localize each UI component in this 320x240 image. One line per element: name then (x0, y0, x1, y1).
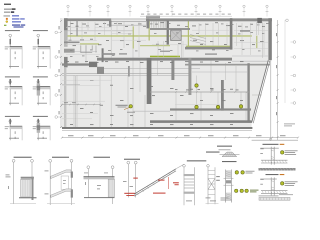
BD4 stair treads (137, 193, 139, 195)
BD1 title (14, 157, 32, 158)
wall band upper-left room (64, 42, 80, 44)
green accent over mid wall (186, 46, 230, 47)
marker dot I (240, 189, 243, 192)
section detail S-S dim ticks (14, 52, 17, 55)
vertical wall x222 lower (221, 80, 224, 111)
BD3 title (94, 157, 111, 158)
BD6 piant wall title (222, 161, 237, 162)
section detail S-S wall line (9, 37, 11, 69)
mid wall junction blob (89, 62, 97, 67)
green vertical right room (256, 36, 257, 49)
section detail C-C' grid bubble (37, 81, 40, 84)
left perimeter wall mid (64, 57, 68, 67)
marker dot A (195, 84, 198, 87)
left dimension line (60, 18, 62, 128)
BD2 left ticks (45, 170, 49, 173)
vertical wall x189 (188, 58, 191, 95)
section detail S-S' base (37, 65, 47, 68)
elevator shaft (171, 30, 182, 40)
section detail C-C' title (33, 76, 48, 77)
extra faint horizontals (66, 26, 90, 28)
leader line (124, 107, 130, 109)
BD2 stems (49, 162, 51, 205)
BD5a ladder column (183, 165, 186, 168)
marker dot J (245, 189, 248, 192)
green accent line long horizontal (66, 35, 252, 36)
BD2 right wall segments (71, 172, 73, 178)
section detail S-S side specks (5, 46, 9, 49)
section detail S-S base (9, 65, 19, 68)
BD2 lower ramp (51, 189, 71, 198)
marker dot F (235, 171, 238, 174)
section detail X1 side specks (5, 125, 9, 128)
section detail C-C base (9, 102, 19, 105)
upper-right room dark segment (240, 30, 250, 32)
section detail C-C title (5, 76, 20, 77)
section detail X2 dim ticks (42, 131, 45, 134)
BD5 red annotation (173, 182, 179, 183)
RC detail 1 left ticks (260, 147, 263, 150)
RC detail 2 horizontal band (261, 190, 288, 192)
left perimeter wall upper (64, 18, 68, 30)
BD4 title (124, 159, 140, 160)
right grid bubbles (286, 19, 289, 22)
section detail C-C' hatched wall (37, 83, 40, 95)
right perimeter wall (268, 18, 271, 60)
section detail S-S' dim ticks (42, 52, 45, 55)
legend title (4, 4, 11, 5)
BD1 left dim specks (6, 174, 10, 177)
section detail C-C slab (10, 85, 23, 88)
green vertical 1 (133, 26, 134, 48)
thick dark wall x148 (147, 58, 152, 104)
section detail X2 wall line (37, 123, 39, 141)
section detail C-C' base (37, 102, 47, 105)
section detail X2 grid bubble (37, 120, 40, 123)
stair core walls (167, 21, 169, 45)
BD1 base (19, 197, 37, 198)
mid wall left section (62, 63, 97, 65)
green vertical core left (149, 21, 150, 41)
section detail S-S wall fill (10, 39, 12, 44)
stair treads (151, 21, 153, 27)
room annotation specks (70, 22, 74, 25)
green accent line short (80, 43, 99, 44)
RC detail 2 vertical (270, 177, 272, 195)
section detail C-C side specks (5, 86, 9, 89)
mid wall main (97, 58, 232, 61)
BD2 grid bubbles (49, 159, 52, 162)
BD3 base (84, 197, 115, 198)
legend line data (4, 12, 11, 13)
RC detail 2 leader text (285, 180, 298, 183)
BD2 upper ramp (51, 170, 71, 179)
section detail X2 wall fill (38, 119, 40, 124)
RC detail 1 leader text (285, 149, 298, 152)
marker dot G (241, 171, 244, 174)
extra faint verticals upper rooms (70, 22, 72, 35)
section detail S-S' title (33, 30, 48, 31)
marker dot K (281, 151, 284, 154)
RC title 1 (263, 144, 279, 145)
wall mid-right lower band (185, 64, 270, 66)
vertical wall x172 (171, 58, 174, 80)
RC bottom band 2 (259, 195, 279, 198)
section detail S-S grid bubble (9, 34, 12, 37)
section detail C-C wall fill (10, 79, 12, 84)
top wall bump over core (146, 16, 160, 19)
BD2 ground (47, 203, 75, 205)
plan bottom thin line (62, 129, 252, 131)
bottom right horizontal (252, 139, 298, 141)
vertical wall x248 lower (247, 63, 249, 122)
corridor stub x128 (128, 66, 130, 77)
BD4 grid bubble (127, 161, 130, 164)
BD5 ground specks (206, 197, 211, 200)
BD4 red text 1 (158, 180, 165, 181)
bottom dimension line of plan (62, 137, 298, 139)
section detail C-C wall line (9, 83, 11, 105)
BD6 bottom specks (221, 197, 229, 200)
BD1 ground marks (10, 203, 36, 205)
BD5b braced column (207, 165, 210, 168)
section detail C-C dim ticks (14, 92, 17, 95)
section detail X1 title (5, 116, 20, 117)
interior thin lines (66, 30, 111, 32)
section detail X1 dim ticks (14, 131, 17, 134)
section detail C-C grid bubble (9, 81, 12, 84)
BD1 right wall (32, 177, 34, 200)
section detail S-S' wall line (37, 37, 39, 69)
corridor line y73.6 (62, 73, 190, 75)
floor plan body fill (62, 18, 272, 127)
legend item 2 orange icon (6, 18, 8, 20)
legend item 3 yellow icon (6, 21, 8, 23)
section detail X1 wall fill (10, 119, 12, 124)
plan bottom edge dark (62, 127, 252, 129)
vertical wall x77 (76, 21, 77, 37)
RC subtitle 1 (260, 147, 279, 150)
label piant small (206, 152, 220, 153)
BD1 stems (13, 162, 15, 204)
section detail C-C' wall line (37, 83, 39, 105)
left perimeter wall lower (64, 67, 66, 127)
BD5 title (187, 160, 207, 161)
section detail C-C' dim ticks (42, 92, 45, 95)
BD4 stems (127, 164, 129, 198)
BD3 slab band (84, 176, 115, 177)
small partitions mid rooms (95, 45, 97, 52)
section detail C-C' wall fill (38, 79, 40, 84)
core top connector wall (147, 18, 150, 28)
section detail S-S slab (10, 45, 23, 48)
marker dot H (235, 189, 238, 192)
BD6 wall plan detail (224, 170, 226, 203)
right outer vertical (270, 61, 272, 141)
BD2 title (52, 157, 69, 158)
BD3 grid bubbles (87, 166, 90, 169)
section detail C-C' side specks (33, 86, 37, 89)
top wall band right (146, 18, 272, 21)
marker dot L (281, 182, 284, 185)
top dimension specks (141, 13, 144, 16)
section detail S-S' grid bubble (37, 34, 40, 37)
BD6 S4 title (217, 146, 232, 147)
diagonal wall right (252, 60, 269, 123)
small partition upper-left (80, 45, 82, 53)
section detail S-S' side specks (33, 46, 37, 49)
dim vertical x75.5 (75, 76, 77, 127)
section detail X2 side specks (33, 125, 37, 128)
green accent bright mid (150, 56, 180, 58)
BD4 stair diagonal (134, 169, 176, 194)
extra upper specks (68, 25, 71, 28)
left rotated dim text (58, 26, 61, 29)
marker dot B (129, 105, 132, 108)
BD1 slab (21, 176, 34, 179)
section detail X1 base (9, 137, 19, 140)
section detail X2 title (33, 116, 48, 117)
BD2 middle box (61, 176, 68, 189)
BD4 red dim vertical (167, 177, 169, 189)
legend item 1 (4, 15, 11, 16)
wall band right rooms (185, 47, 232, 50)
BD3 top ticks (84, 172, 88, 175)
BD6 green text (250, 189, 259, 192)
RC title 2 (266, 174, 279, 175)
right dimension line (277, 20, 279, 140)
BD1 hatched wall below slab (21, 179, 31, 197)
legend line scala (4, 9, 11, 10)
corridor junction block (97, 67, 104, 74)
ramp hatch diagonals upper right room (190, 35, 206, 39)
top wall gap thin lines (111, 18, 146, 20)
BD3 dim specks (84, 182, 87, 185)
section detail C-C' slab (38, 85, 51, 88)
section detail X2 hatched wall (37, 123, 40, 133)
left perimeter wall hatched (64, 30, 68, 46)
green vertical core right (188, 21, 189, 47)
BD4 stair upper extension (176, 164, 184, 169)
left wall jut (64, 49, 75, 53)
section detail S-S' slab (38, 45, 51, 48)
section detail S-S' wall fill (38, 39, 40, 44)
legend item 4 green icon (4, 25, 6, 26)
section detail X1 grid bubble (9, 120, 12, 123)
vertical wall x109 (109, 21, 112, 27)
right small text (284, 123, 295, 126)
section detail S-S title (5, 30, 20, 31)
top-right corner dark block (257, 18, 262, 23)
dim line lower-left (62, 104, 100, 106)
green accent y45 core (140, 45, 170, 46)
BD3 hatched pier (108, 179, 114, 197)
vertical wall x230 (230, 18, 233, 49)
BD3 stems (87, 169, 89, 198)
interior thin grid verticals (69, 21, 71, 41)
section detail X2 base (37, 137, 47, 140)
wall band y121 (150, 120, 252, 123)
BD5b dim arrows (216, 175, 220, 178)
horizontal line y92 (150, 91, 250, 93)
vertical wall x102 (102, 48, 104, 62)
BD4 base specks (130, 185, 134, 188)
RC detail 1 vertical (270, 147, 272, 165)
section detail X2 slab (38, 125, 51, 128)
RC detail 1 horizontal band (261, 159, 288, 161)
top grid bubbles (67, 5, 69, 7)
left grid bubbles (55, 31, 58, 34)
marker dot C (195, 105, 198, 108)
BD1 grid bubbles (12, 159, 15, 162)
BD6 mound elevation (222, 152, 237, 157)
section detail X1 slab (10, 125, 23, 128)
RC subtitle 2 (260, 178, 277, 181)
BD4 red text 2 (153, 193, 166, 194)
wall band y109 (170, 108, 251, 110)
second right dim line (284, 20, 286, 103)
marker dot D (216, 105, 219, 108)
annotation text near marker (116, 104, 128, 107)
section detail X1 wall line (9, 123, 11, 141)
RC bottom band 1 (259, 168, 296, 171)
top wall band left (66, 18, 111, 21)
marker dot E (239, 105, 242, 108)
